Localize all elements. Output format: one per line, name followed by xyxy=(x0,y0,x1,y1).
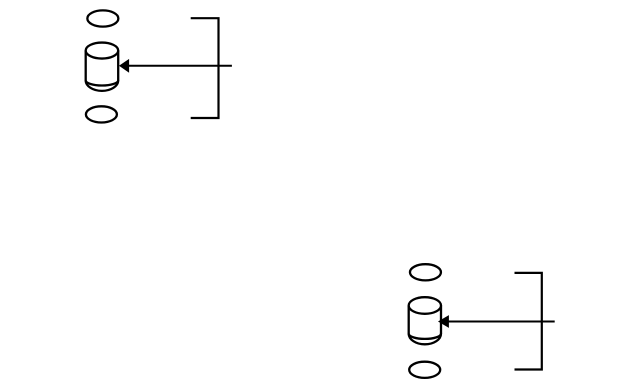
bracket (group 1) xyxy=(191,18,219,118)
bracket (group 2) xyxy=(515,273,542,370)
ellipse top (group 2) xyxy=(410,264,441,280)
arrowhead (group 1) xyxy=(119,59,129,73)
arrowhead (group 2) xyxy=(438,315,449,328)
ellipse top (group 1) xyxy=(87,10,118,26)
ellipse bottom (group 1) xyxy=(86,106,117,122)
cylinder DB2 (group 2) xyxy=(409,297,441,344)
ellipse bottom (group 2) xyxy=(409,362,440,378)
wire arrow line (group 1) xyxy=(124,65,232,67)
wire arrow line (group 2) xyxy=(443,321,555,323)
cylinder DB1 (group 1) xyxy=(86,43,119,91)
